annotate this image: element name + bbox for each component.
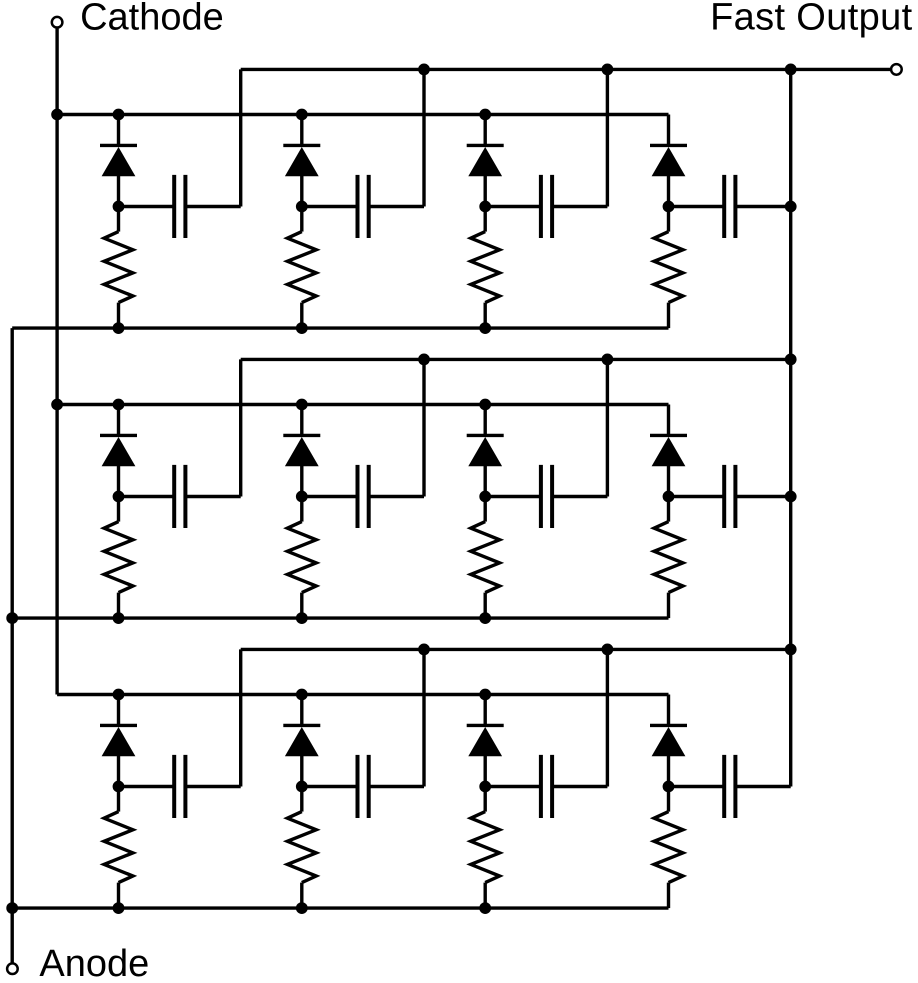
svg-text:Anode: Anode <box>39 943 149 983</box>
svg-text:Fast Output: Fast Output <box>710 0 912 38</box>
svg-text:Cathode: Cathode <box>80 0 224 38</box>
